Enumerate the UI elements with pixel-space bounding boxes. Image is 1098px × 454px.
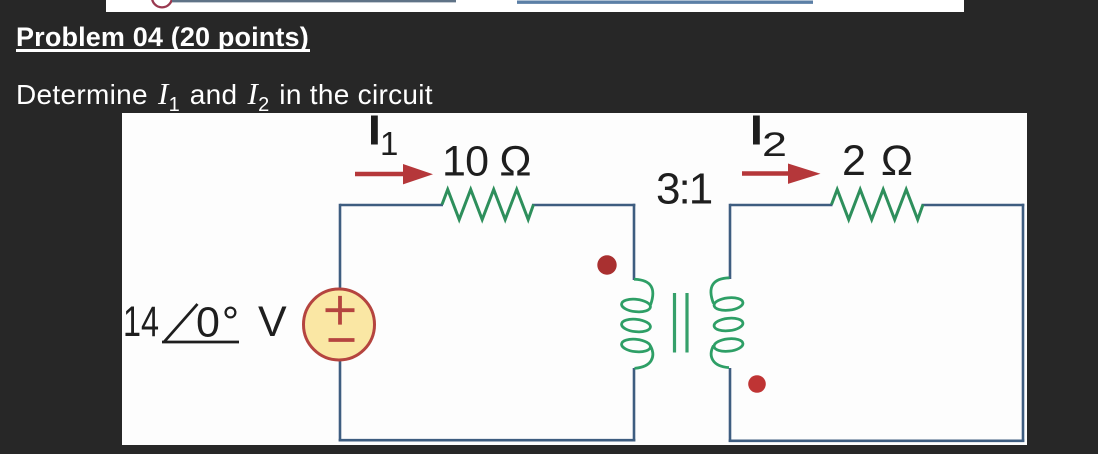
current I2 arrow	[742, 171, 792, 176]
svg-text:V: V	[258, 298, 287, 346]
svg-text:1: 1	[380, 125, 398, 162]
wire left-loop left lower	[339, 359, 342, 442]
title	[16, 22, 309, 53]
transformer left coil loop 2	[621, 318, 651, 333]
svg-text:14: 14	[123, 298, 159, 346]
resistor R1 10ohm zigzag	[442, 190, 534, 220]
wire right-loop right	[1022, 204, 1025, 442]
wire left-loop left upper	[339, 204, 342, 290]
angle symbol of phasor	[162, 304, 239, 342]
transformer core line right	[685, 293, 688, 353]
transformer right coil top hook	[711, 278, 730, 304]
prompt line	[16, 76, 433, 117]
transformer right coil loop 3	[713, 337, 743, 352]
transformer left coil top hook	[634, 279, 653, 305]
dot primary (top-left)	[597, 255, 616, 274]
transformer left coil loop 3	[621, 338, 651, 353]
transformer left coil loop 1	[621, 298, 651, 313]
voltage source plus sign	[326, 296, 355, 325]
voltage source VS circle	[304, 289, 375, 360]
label I2 bar	[753, 116, 760, 145]
remnant wire B top strip	[517, 1, 813, 4]
wire right-loop top segment right	[922, 204, 1025, 207]
voltage source minus sign	[329, 338, 355, 342]
svg-text:10 Ω: 10 Ω	[442, 138, 531, 186]
wire right-loop left upper	[729, 204, 732, 279]
transformer right coil bottom hook	[711, 346, 729, 368]
transformer right coil loop 2	[713, 317, 743, 332]
resistor R2 2ohm zigzag	[832, 190, 924, 220]
current I1 arrow	[355, 172, 406, 177]
remnant circle top strip	[152, 0, 172, 7]
svg-text:2 Ω: 2 Ω	[842, 137, 915, 185]
top white band (remnant of previous slide figure)	[106, 0, 964, 12]
wire left-loop top segment right	[532, 204, 635, 207]
wire right-loop top segment left	[730, 204, 833, 207]
wire left-loop top segment left	[340, 204, 443, 207]
transformer left coil bottom hook	[635, 346, 653, 368]
svg-text:0°: 0°	[196, 299, 241, 347]
white circuit panel	[122, 113, 1027, 445]
dot secondary (bottom-right)	[748, 375, 766, 393]
wire left-loop right lower	[633, 368, 636, 442]
svg-text:2: 2	[762, 126, 787, 164]
remnant wire A top strip	[172, 0, 456, 2]
wire right-loop left lower	[729, 368, 732, 442]
wire left-loop right upper	[633, 204, 636, 280]
svg-text:3:1: 3:1	[656, 165, 712, 214]
wire left-loop bottom	[339, 439, 636, 442]
transformer right coil loop 1	[713, 296, 743, 311]
transformer core line left	[673, 293, 676, 353]
label I1 bar	[371, 116, 378, 145]
wire right-loop bottom	[729, 439, 1025, 442]
